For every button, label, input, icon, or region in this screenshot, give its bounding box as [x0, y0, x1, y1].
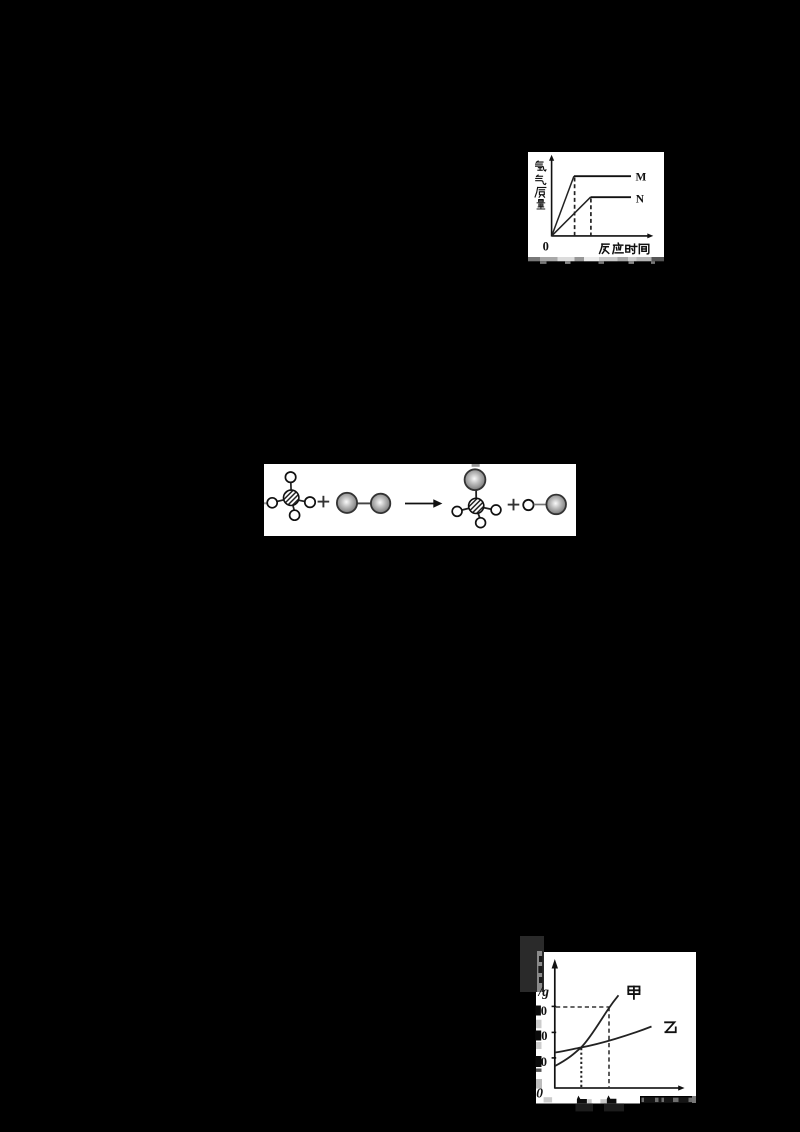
svg-text:0: 0 — [541, 1004, 547, 1018]
curve yi (shallow) — [555, 1027, 652, 1053]
bond — [534, 504, 546, 506]
gray edge strip with glyph remnants — [537, 951, 542, 992]
sphere A — [337, 493, 357, 513]
svg-text:0: 0 — [536, 1085, 543, 1100]
diatomic product: small white atom — [523, 500, 533, 510]
figure 3: mass vs time chart (bottom right) — [510, 930, 710, 1132]
torn gray noise strip under panel — [528, 257, 664, 264]
t2 fragment below axis — [600, 1099, 606, 1103]
white panel — [536, 952, 696, 1096]
dashed vertical t2 — [608, 1007, 610, 1088]
product central hatched atom — [469, 498, 484, 513]
t1 fragment below axis — [577, 1096, 587, 1104]
y tick 1 — [552, 1005, 557, 1007]
y tick 3 — [552, 1057, 557, 1059]
sphere B — [371, 494, 390, 513]
svg-text:N: N — [636, 193, 645, 205]
product H atoms — [452, 505, 501, 528]
methane-like molecule: bonds — [277, 482, 305, 510]
label yi — [665, 1022, 676, 1032]
label jia — [628, 987, 639, 999]
x axis — [552, 235, 650, 237]
svg-text:M: M — [636, 172, 647, 184]
plus sign 2 — [508, 499, 520, 511]
gray artifact tab at top — [472, 464, 480, 467]
figure 2: molecular reaction diagram (middle) — [264, 464, 576, 536]
H atoms (small white) — [267, 472, 315, 520]
dashed horizontal to curve jia — [556, 1006, 609, 1008]
central hatched atom — [284, 490, 299, 505]
dark gray artifact rectangle top-left — [520, 936, 544, 992]
dashed drop from M — [574, 178, 576, 237]
curve M rise — [552, 176, 574, 236]
svg-text:0: 0 — [543, 240, 549, 254]
cut-off x axis title 时间/s remnants — [642, 1098, 693, 1103]
svg-text:0: 0 — [541, 1029, 547, 1043]
curve N rise — [552, 197, 591, 236]
curve N plateau — [591, 196, 632, 198]
black blobs of cut-off digits at panel edge — [536, 1006, 541, 1016]
product top sphere — [465, 469, 486, 490]
svg-text:/g: /g — [538, 984, 550, 999]
y tick 2 — [552, 1031, 557, 1033]
reaction arrow — [405, 503, 435, 505]
gray stub at left edge — [264, 502, 267, 504]
light gray remnant blocks on edge — [536, 1020, 542, 1028]
y axis — [554, 964, 556, 1089]
plus sign — [318, 496, 330, 508]
y-axis title 氢气质量 (drawn glyphs) — [536, 161, 546, 171]
white panel — [528, 152, 664, 257]
dotted vertical t1 — [580, 1048, 582, 1088]
dashed drop from N — [590, 199, 592, 237]
figure 1: hydrogen-mass vs reaction-time chart (top right) — [528, 152, 664, 264]
curve jia (steep) — [555, 995, 619, 1066]
x axis — [555, 1087, 681, 1089]
y axis — [551, 159, 553, 237]
x-axis title 反应时间 — [600, 244, 609, 253]
product molecule bonds — [462, 490, 492, 518]
gray sphere — [546, 495, 566, 515]
svg-text:0: 0 — [541, 1055, 547, 1069]
curve M plateau — [574, 175, 631, 177]
diatomic molecule bond — [356, 502, 372, 504]
